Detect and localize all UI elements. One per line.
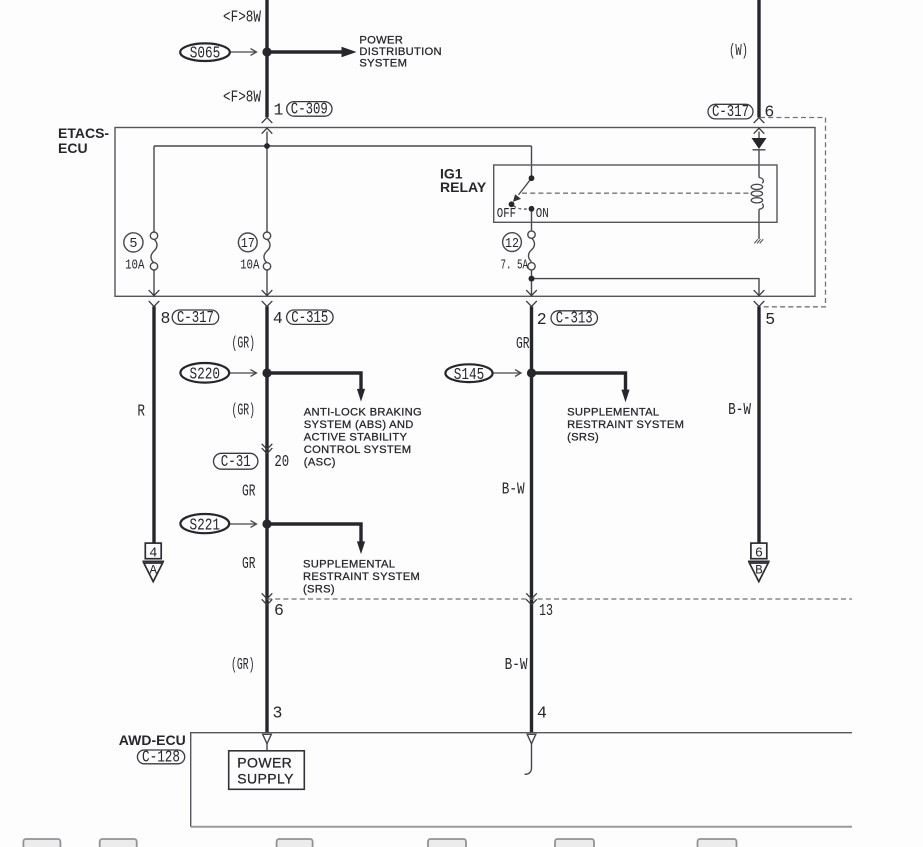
wire pin3 to power supply box [266,744,268,751]
chevrons dashed crossing x531 [526,593,537,599]
svg-text:CONTROL SYSTEM: CONTROL SYSTEM [304,444,412,456]
wire fuse17 to pin4 [266,270,268,296]
svg-text:ANTI-LOCK BRAKING: ANTI-LOCK BRAKING [304,407,422,419]
svg-text:C-317: C-317 [177,308,214,327]
svg-text:C-309: C-309 [291,99,328,118]
svg-text:6: 6 [764,102,774,121]
wire bus to fuse17 [266,146,268,232]
wire pin4 column (x=267) [265,306,268,732]
wire relay ON to fuse12 [531,209,533,231]
wire IG feed top (x=759) [757,0,760,117]
svg-text:(GR): (GR) [232,333,256,352]
chevrons pin1 entry [262,118,273,124]
svg-text:2: 2 [537,310,547,329]
svg-text:SUPPLEMENTAL: SUPPLEMENTAL [303,558,395,570]
fuse 17 [264,239,270,263]
svg-text:S065: S065 [190,44,221,63]
chevrons dashed crossing x267 [262,593,273,599]
connector label C-317 top [708,104,753,119]
node S220 junction [262,368,271,377]
wire pin4 stub with curl [525,744,532,774]
wire S145 branch to SRS [532,373,626,390]
diode [752,138,767,149]
svg-text:SYSTEM (ABS) AND: SYSTEM (ABS) AND [304,419,414,431]
svg-text:20: 20 [274,452,289,471]
wire S065 pointer arrow [231,51,256,53]
ground B terminal box 6 [751,543,767,559]
svg-text:AWD-ECU: AWD-ECU [119,732,186,748]
svg-text:<F>8W: <F>8W [223,7,261,26]
wire S145 pointer arrow [493,372,520,374]
svg-text:B-W: B-W [502,480,525,499]
svg-text:POWER: POWER [237,755,292,771]
relay switch arm [519,178,532,195]
wire diode to relay coil [758,150,760,178]
node S065 junction [262,47,271,56]
svg-text:3: 3 [273,703,283,722]
wire battery feed top (x=267) [265,0,268,117]
AWD-ECU box [191,733,852,827]
svg-text:6: 6 [755,547,763,562]
svg-text:17: 17 [241,237,255,252]
wire pin2 column (x=531.5) [530,306,533,732]
pin symbol AWD pin4 [527,734,536,744]
svg-text:S145: S145 [454,365,485,384]
chevrons pin8 exit [149,290,160,296]
svg-text:5: 5 [129,237,137,252]
svg-text:(SRS): (SRS) [567,431,599,443]
connector label C-317 pin8 [172,310,219,324]
splice ellipse S220 [180,363,229,383]
IG1 relay box [494,165,777,222]
ETACS-ECU box [115,128,815,297]
svg-text:(GR): (GR) [232,401,256,420]
chevrons pin2 exit [526,290,537,296]
svg-text:GR: GR [242,482,256,501]
svg-text:OFF: OFF [497,207,516,222]
splice ellipse S065 [180,43,230,61]
svg-text:C-31: C-31 [221,452,251,471]
dashed relay actuation line [522,192,750,194]
wire pin8 to ground A (x=154) [152,306,155,543]
svg-text:GR: GR [516,334,530,353]
svg-text:10A: 10A [240,259,260,274]
wire S221 branch to SRS [267,524,361,542]
fuse 5 [151,239,157,263]
svg-text:B: B [755,564,763,578]
connector label C-313 [551,311,598,325]
svg-text:B-W: B-W [728,400,751,419]
wire fuse12 junction to pin5 column [532,279,760,296]
svg-text:SUPPLEMENTAL: SUPPLEMENTAL [567,406,659,418]
svg-text:S221: S221 [190,515,221,534]
svg-text:C-128: C-128 [142,747,180,766]
ground A symbol [142,560,164,562]
svg-text:13: 13 [539,601,553,620]
svg-text:POWER: POWER [359,34,403,46]
node S145 junction [527,368,536,377]
node fuse12 junction [529,276,535,282]
relay contact dots [529,175,535,181]
svg-text:RESTRAINT SYSTEM: RESTRAINT SYSTEM [303,571,420,583]
wire coil to ground rake [758,209,760,239]
svg-text:(W): (W) [729,41,748,60]
connector label C-128 [137,750,184,764]
svg-text:(SRS): (SRS) [303,583,335,595]
wire fuse12 to pin2 [531,270,533,296]
svg-text:C-315: C-315 [291,308,328,327]
svg-text:RELAY: RELAY [440,179,487,195]
node bus junction [264,143,270,149]
connector label C-315 [287,310,334,324]
wire S221 pointer arrow [230,523,256,525]
svg-text:6: 6 [274,601,284,620]
ground B symbol [748,560,770,562]
connector dashed extension box [760,118,826,307]
svg-text:(GR): (GR) [231,655,255,674]
svg-text:5: 5 [765,310,775,329]
wire internal bus [154,145,532,147]
wire S220 pointer arrow [230,372,256,374]
legend stub boxes bottom [23,839,736,847]
svg-text:ON: ON [536,207,549,222]
svg-text:4: 4 [537,703,547,722]
splice ellipse S145 [445,364,492,382]
wire bus to fuse5 [153,146,155,232]
connector label C-31 [214,453,258,469]
svg-text:12: 12 [505,237,519,252]
wire bus to relay switch [531,146,533,177]
dashed page-break line [267,598,852,600]
svg-text:4: 4 [273,309,283,328]
svg-text:10A: 10A [125,259,145,274]
svg-text:ACTIVE STABILITY: ACTIVE STABILITY [304,432,408,444]
coil ground rake [754,239,763,243]
wire S220 branch to ABS [267,373,361,390]
svg-text:1: 1 [274,101,284,120]
svg-text:C-317: C-317 [712,102,749,121]
chevrons pin6 entry [754,118,765,124]
svg-text:RESTRAINT SYSTEM: RESTRAINT SYSTEM [567,419,684,431]
fuse 12 [528,238,534,262]
svg-text:C-313: C-313 [556,309,593,328]
svg-text:ECU: ECU [58,140,88,156]
wire fuse5 to pin8 [153,270,155,296]
svg-text:(ASC): (ASC) [304,457,336,469]
svg-text:7. 5A: 7. 5A [501,259,529,274]
relay coil [759,178,763,184]
svg-text:A: A [150,564,158,578]
pin symbol AWD pin3 [263,734,272,744]
svg-text:GR: GR [242,554,256,573]
splice ellipse S221 [180,514,229,533]
wire branch arrow to power distribution system [267,50,343,53]
svg-text:S220: S220 [190,365,221,384]
chevrons connector C-31 [262,444,273,450]
connector label C-309 [287,102,332,117]
svg-text:R: R [137,402,145,421]
chevrons pin5 exit [754,290,765,296]
POWER SUPPLY box [229,751,305,790]
wire pin1 into ECU [266,132,268,147]
wire pin6 to diode [758,132,760,139]
dashed OFF-ON link [514,206,530,209]
chevrons pin4 exit [262,290,273,296]
node S221 junction [262,519,271,528]
wire pin5 to ground B (x=759) [757,306,760,543]
svg-text:SUPPLY: SUPPLY [237,770,294,786]
svg-text:DISTRIBUTION: DISTRIBUTION [359,46,442,58]
svg-text:4: 4 [149,547,157,562]
svg-text:8: 8 [161,309,171,328]
svg-text:<F>8W: <F>8W [223,87,261,106]
ground A terminal box 4 [145,543,161,559]
svg-text:B-W: B-W [505,655,528,674]
svg-text:SYSTEM: SYSTEM [359,58,407,70]
svg-text:ETACS-: ETACS- [58,125,109,141]
